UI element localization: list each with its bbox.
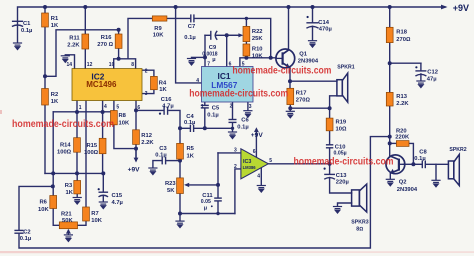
svg-text:0.1µ: 0.1µ [237,125,248,131]
svg-text:Q1: Q1 [299,51,308,57]
svg-text:8Ω: 8Ω [356,226,363,232]
svg-text:0.1µ: 0.1µ [184,35,195,41]
svg-text:5K: 5K [167,188,175,194]
svg-text:4: 4 [257,173,260,179]
svg-text:220K: 220K [395,135,410,141]
svg-text:4.7µ: 4.7µ [162,104,173,110]
svg-text:5: 5 [116,104,119,110]
svg-text:R1: R1 [51,16,59,22]
svg-text:0.1µ: 0.1µ [184,120,195,126]
svg-text:0.1µ: 0.1µ [20,236,31,242]
svg-text:C1: C1 [23,21,31,27]
svg-text:270 Ω: 270 Ω [97,42,113,48]
svg-text:25K: 25K [252,36,263,42]
svg-text:0.1µ: 0.1µ [21,28,32,34]
svg-text:10K: 10K [38,207,49,213]
svg-text:C14: C14 [318,20,329,26]
svg-text:homemade-circuits.com: homemade-circuits.com [189,87,288,99]
svg-text:R9: R9 [154,26,162,32]
svg-text:2: 2 [230,104,233,110]
svg-text:1: 1 [79,105,82,111]
svg-text:100Ω: 100Ω [57,149,72,155]
svg-text:SPKR3: SPKR3 [351,219,368,225]
svg-text:R3: R3 [65,183,73,189]
svg-text:10K: 10K [91,218,102,224]
svg-text:6: 6 [137,105,140,111]
svg-text:+9V: +9V [453,3,469,13]
svg-text:C8: C8 [419,150,427,156]
svg-text:10K: 10K [252,54,263,60]
svg-text:R23: R23 [165,181,176,187]
svg-text:homemade-circuits.com: homemade-circuits.com [12,118,114,130]
svg-text:Q2: Q2 [399,180,407,186]
svg-text:47µ: 47µ [427,77,437,83]
svg-text:R11: R11 [69,36,80,42]
svg-text:0.1µ: 0.1µ [155,152,166,158]
svg-text:homemade-circuits.com: homemade-circuits.com [294,156,394,168]
svg-text:R4: R4 [159,81,167,87]
svg-text:12: 12 [87,62,93,68]
svg-text:4: 4 [104,104,107,110]
svg-text:R21: R21 [61,212,72,218]
svg-text:+9V: +9V [128,166,141,173]
svg-text:0.1µ: 0.1µ [414,156,425,162]
svg-text:+9V: +9V [251,132,264,139]
svg-text:R12: R12 [141,133,152,139]
svg-text:1K: 1K [187,154,195,160]
svg-text:2: 2 [145,68,148,74]
svg-text:2N3904: 2N3904 [397,187,418,193]
svg-text:8: 8 [131,62,134,68]
svg-text:R16: R16 [101,35,112,41]
svg-text:R13: R13 [396,94,407,100]
svg-text:µ: µ [212,57,215,63]
svg-text:4.7µ: 4.7µ [112,200,123,206]
svg-text:C15: C15 [112,193,123,199]
svg-text:14: 14 [67,62,73,68]
svg-text:10K: 10K [119,121,130,127]
svg-text:R15: R15 [87,143,98,149]
svg-text:C3: C3 [159,146,167,152]
svg-text:2.2K: 2.2K [396,101,409,107]
svg-text:C12: C12 [427,70,438,76]
svg-text:C6: C6 [241,118,249,124]
svg-text:R5: R5 [187,146,195,152]
svg-text:6: 6 [229,62,232,68]
svg-text:3: 3 [145,91,148,97]
svg-text:2N3904: 2N3904 [298,58,319,64]
svg-text:C2: C2 [23,230,30,236]
svg-text:2.2K: 2.2K [141,140,154,146]
svg-text:R8: R8 [119,113,127,119]
svg-text:2: 2 [234,164,237,170]
svg-text:R22: R22 [252,29,263,35]
svg-text:470µ: 470µ [319,27,332,33]
svg-text:7: 7 [207,62,210,68]
svg-text:3: 3 [249,104,252,110]
svg-text:6: 6 [253,149,256,155]
svg-text:SPKR1: SPKR1 [337,64,354,70]
svg-text:1K: 1K [159,87,167,93]
svg-text:homemade-circuits.com: homemade-circuits.com [232,64,331,76]
svg-text:C16: C16 [161,97,172,103]
svg-text:5: 5 [269,158,272,164]
svg-text:10K: 10K [153,33,164,39]
svg-text:R17: R17 [296,91,307,97]
svg-text:1K: 1K [51,23,59,29]
svg-text:2.2K: 2.2K [67,43,80,49]
svg-text:10Ω: 10Ω [336,127,347,133]
svg-text:3: 3 [234,148,237,154]
svg-text:C7: C7 [188,24,195,30]
svg-text:MC1496: MC1496 [86,80,117,89]
svg-text:1: 1 [201,104,204,110]
svg-text:R2: R2 [51,92,58,98]
svg-text:µ: µ [204,205,207,211]
svg-text:270Ω: 270Ω [396,37,411,43]
svg-text:0.1µ: 0.1µ [207,113,218,119]
svg-text:100Ω: 100Ω [84,150,99,156]
svg-text:270Ω: 270Ω [296,98,311,104]
svg-text:C5: C5 [212,106,220,112]
svg-text:1K: 1K [66,190,74,196]
svg-text:SPKR2: SPKR2 [449,147,466,153]
svg-text:R19: R19 [336,120,347,126]
svg-text:R6: R6 [40,200,48,206]
svg-text:0.05: 0.05 [201,199,211,205]
svg-text:R20: R20 [396,128,407,134]
svg-text:1K: 1K [51,99,59,105]
svg-text:220µ: 220µ [336,180,349,186]
svg-text:R14: R14 [60,142,71,148]
svg-text:4: 4 [196,78,199,84]
svg-text:R10: R10 [252,47,263,53]
svg-text:LM386: LM386 [243,165,257,170]
svg-text:50K: 50K [62,218,73,224]
svg-text:C9: C9 [209,45,217,51]
svg-text:R7: R7 [91,211,98,217]
svg-text:C13: C13 [336,173,347,179]
svg-text:10: 10 [109,62,115,68]
svg-text:R18: R18 [396,30,407,36]
